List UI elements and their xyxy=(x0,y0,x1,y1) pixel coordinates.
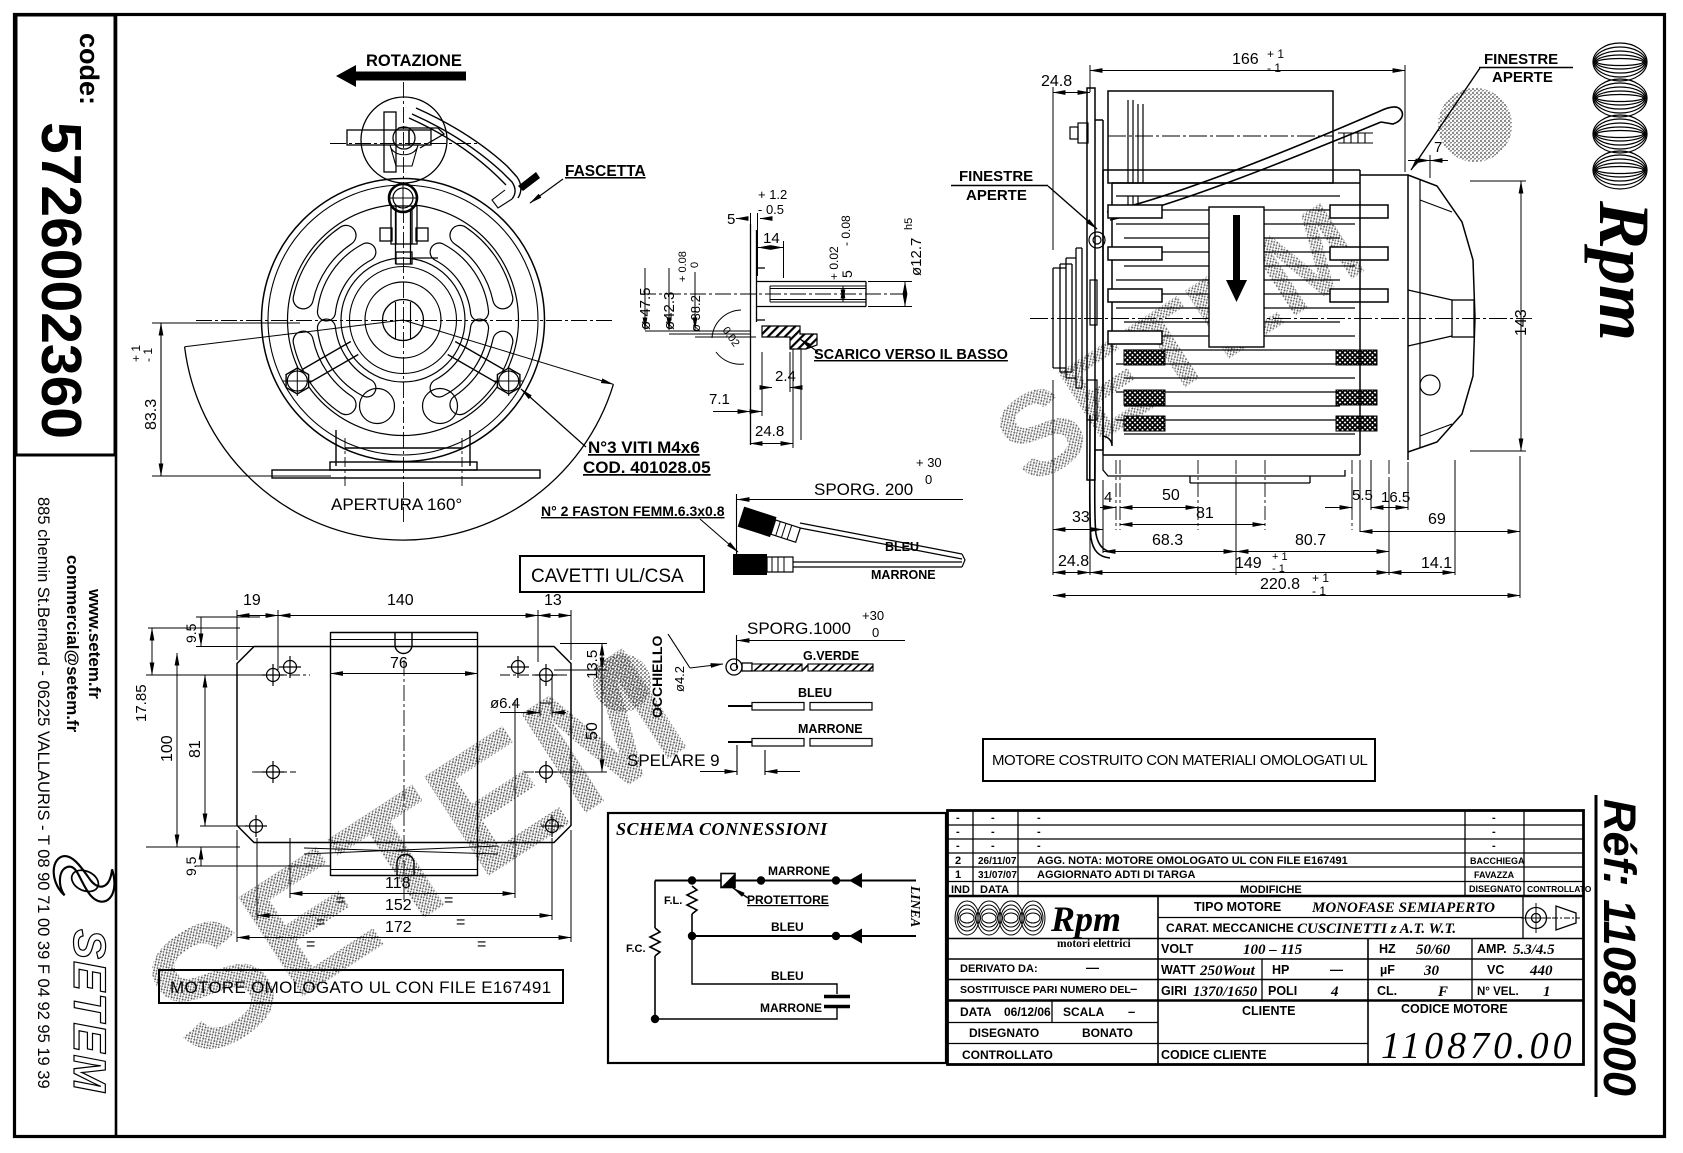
wire bleu xyxy=(692,935,916,937)
angle note 0.02 xyxy=(712,310,741,338)
vent arrow xyxy=(1226,215,1247,302)
wire F.L. to bleu node xyxy=(691,914,693,936)
svg-text:–: – xyxy=(1130,981,1137,996)
svg-text:APERTE: APERTE xyxy=(966,187,1027,204)
svg-text:-: - xyxy=(991,840,995,852)
svg-text:50: 50 xyxy=(584,722,601,740)
svg-text:=: = xyxy=(444,892,453,909)
svg-text:172: 172 xyxy=(385,919,412,936)
svg-text:0: 0 xyxy=(872,625,879,640)
dim 14 xyxy=(758,241,784,278)
vent slot arrow panel xyxy=(1209,207,1264,347)
SETEM logo bottom-left xyxy=(54,856,115,902)
svg-text:—: — xyxy=(1330,962,1343,977)
svg-text:- 1: - 1 xyxy=(1272,563,1285,575)
projection symbol xyxy=(1521,903,1580,933)
flange face vertical xyxy=(750,224,752,445)
svg-text:AGGIORNATO ADTI DI TARGA: AGGIORNATO ADTI DI TARGA xyxy=(1037,869,1196,881)
svg-text:100: 100 xyxy=(159,735,176,762)
svg-text:17.85: 17.85 xyxy=(133,684,150,722)
scarico label xyxy=(800,339,1008,363)
svg-text:AGG. NOTA: MOTORE OMOLOGATO UL: AGG. NOTA: MOTORE OMOLOGATO UL CON FILE … xyxy=(1037,855,1348,867)
box motore omologato xyxy=(159,970,563,1003)
svg-text:Rpm: Rpm xyxy=(1050,899,1121,939)
svg-text:- 1: - 1 xyxy=(1267,61,1281,75)
watermark blobs xyxy=(1438,88,1512,162)
svg-text:SETEM: SETEM xyxy=(64,929,115,1094)
svg-text:CARAT. MECCANICHE: CARAT. MECCANICHE xyxy=(1166,921,1294,935)
svg-text:FASCETTA: FASCETTA xyxy=(565,163,646,180)
code box xyxy=(16,15,115,455)
screw arm 30 xyxy=(455,342,504,370)
vent slots xyxy=(450,331,513,414)
screw arm 150 xyxy=(310,355,359,383)
side view bottom dims xyxy=(1116,460,1389,530)
svg-text:HZ: HZ xyxy=(1379,942,1396,956)
svg-text:MARRONE: MARRONE xyxy=(871,568,936,582)
node junction bleu xyxy=(688,932,696,940)
svg-text:24.8: 24.8 xyxy=(1058,553,1089,570)
svg-text:118: 118 xyxy=(385,875,411,892)
svg-text:BLEU: BLEU xyxy=(771,920,804,934)
svg-text:WATT: WATT xyxy=(1161,963,1196,977)
svg-text:1370/1650: 1370/1650 xyxy=(1193,984,1258,1000)
screw arm -90 xyxy=(395,208,397,264)
svg-text:220.8: 220.8 xyxy=(1260,576,1300,593)
svg-text:code:: code: xyxy=(74,33,104,105)
svg-text:BLEU: BLEU xyxy=(885,540,919,554)
svg-text:5.5: 5.5 xyxy=(1352,487,1373,504)
svg-text:-: - xyxy=(1492,826,1496,838)
svg-text:APERTURA 160°: APERTURA 160° xyxy=(331,495,462,514)
bottom mounting foot xyxy=(1103,455,1345,483)
svg-text:13.5: 13.5 xyxy=(584,650,601,679)
right bell housing xyxy=(1360,170,1475,460)
revision rows text xyxy=(951,812,1592,896)
svg-text:motori elettrici: motori elettrici xyxy=(1057,938,1132,950)
bleu wire xyxy=(728,703,804,711)
svg-text:OCCHIELLO: OCCHIELLO xyxy=(649,635,665,718)
svg-text:DATA: DATA xyxy=(960,1005,992,1019)
svg-text:4: 4 xyxy=(1104,489,1112,506)
svg-text:=: = xyxy=(477,936,486,953)
screw -90 xyxy=(389,184,417,212)
svg-text:SCHEMA CONNESSIONI: SCHEMA CONNESSIONI xyxy=(616,819,828,839)
svg-text:N° VEL.: N° VEL. xyxy=(1477,986,1519,998)
flange cable loop xyxy=(1090,415,1112,558)
svg-text:MARRONE: MARRONE xyxy=(798,722,863,736)
box motore costruito xyxy=(983,739,1375,781)
bottom holes xyxy=(360,389,395,424)
box cavetti xyxy=(520,556,704,592)
svg-text:IND: IND xyxy=(951,884,970,896)
fascetta label xyxy=(530,163,646,203)
svg-text:14.1: 14.1 xyxy=(1421,555,1452,572)
svg-text:=: = xyxy=(316,914,325,931)
svg-text:CLIENTE: CLIENTE xyxy=(1242,1004,1295,1018)
wire left vertical xyxy=(654,881,656,929)
svg-text:68.3: 68.3 xyxy=(1152,532,1183,549)
svg-text:152: 152 xyxy=(385,897,412,914)
svg-text:24.8: 24.8 xyxy=(755,423,784,440)
svg-text:www.setem.fr: www.setem.fr xyxy=(85,588,104,699)
svg-text:100 – 115: 100 – 115 xyxy=(1243,942,1303,958)
svg-text:5.3/4.5: 5.3/4.5 xyxy=(1513,942,1555,958)
ring terminal g.verde xyxy=(726,659,752,675)
svg-text:SOSTITUISCE PARI NUMERO DEL: SOSTITUISCE PARI NUMERO DEL xyxy=(960,984,1131,996)
handle strap xyxy=(1107,107,1402,220)
svg-text:26/11/07: 26/11/07 xyxy=(978,856,1017,867)
svg-text:G.VERDE: G.VERDE xyxy=(803,649,859,663)
svg-text:-: - xyxy=(991,812,995,824)
svg-text:–: – xyxy=(1128,1004,1135,1019)
plate octagon outline xyxy=(237,647,571,843)
svg-text:-: - xyxy=(1037,812,1041,824)
svg-text:-: - xyxy=(1492,840,1496,852)
pulley circle xyxy=(347,97,447,183)
Rpm coil logo top-right xyxy=(1593,43,1647,189)
svg-text:=: = xyxy=(306,936,315,953)
linea arrow top xyxy=(849,873,862,888)
dim 5 top xyxy=(736,213,770,276)
svg-text:DISEGNATO: DISEGNATO xyxy=(1469,884,1522,894)
wire left vertical lower xyxy=(654,956,656,1019)
svg-text:N° 2 FASTON FEMM.6.3x0.8: N° 2 FASTON FEMM.6.3x0.8 xyxy=(541,503,725,519)
svg-text:LINEA: LINEA xyxy=(908,885,923,927)
resistor F.L. main winding xyxy=(687,886,697,914)
svg-text:13: 13 xyxy=(544,592,562,609)
fascetta strap xyxy=(409,108,540,208)
svg-text:80.7: 80.7 xyxy=(1295,532,1326,549)
svg-text:440: 440 xyxy=(1529,963,1553,979)
finestre aperte left label xyxy=(951,168,1097,229)
svg-text:1: 1 xyxy=(955,869,961,881)
svg-text:=: = xyxy=(336,892,345,909)
svg-text:30: 30 xyxy=(1423,963,1440,979)
handle hook blocks xyxy=(0,0,1,1)
faston connector lower xyxy=(733,554,793,575)
svg-text:+ 0.02: + 0.02 xyxy=(827,246,841,280)
svg-text:MODIFICHE: MODIFICHE xyxy=(1240,884,1302,896)
svg-text:SPELARE 9: SPELARE 9 xyxy=(627,751,720,770)
svg-text:33: 33 xyxy=(1072,509,1090,526)
svg-text:0: 0 xyxy=(925,472,932,487)
apertura arc xyxy=(185,347,614,540)
label protettore with leader arrow xyxy=(733,888,829,907)
svg-text:5726002360: 5726002360 xyxy=(29,122,93,439)
svg-text:FAVAZZA: FAVAZZA xyxy=(1474,870,1515,880)
svg-text:-: - xyxy=(1492,812,1496,824)
svg-text:APERTE: APERTE xyxy=(1492,69,1553,86)
shaft outline xyxy=(756,281,866,283)
wire bleu to capacitor xyxy=(692,936,837,994)
rotazione arrow xyxy=(336,65,466,87)
svg-text:5: 5 xyxy=(839,270,855,278)
svg-text:F: F xyxy=(1437,984,1448,1000)
svg-text:BONATO: BONATO xyxy=(1082,1026,1133,1040)
svg-text:50: 50 xyxy=(1162,487,1180,504)
svg-text:VOLT: VOLT xyxy=(1161,942,1194,956)
svg-text:1: 1 xyxy=(1543,984,1551,1000)
svg-text:CAVETTI UL/CSA: CAVETTI UL/CSA xyxy=(531,566,684,587)
svg-text:ROTAZIONE: ROTAZIONE xyxy=(366,52,462,70)
linea arrow bleu xyxy=(849,929,862,944)
svg-text:ø4.2: ø4.2 xyxy=(672,666,687,692)
svg-text:MARRONE: MARRONE xyxy=(760,1001,822,1015)
svg-text:MONOFASE SEMIAPERTO: MONOFASE SEMIAPERTO xyxy=(1311,900,1495,916)
svg-text:SCALA: SCALA xyxy=(1063,1005,1105,1019)
svg-text:PROTETTORE: PROTETTORE xyxy=(747,893,829,907)
svg-text:CUSCINETTI z A.T. W.T.: CUSCINETTI z A.T. W.T. xyxy=(1297,921,1456,937)
svg-text:Réf: 11087000: Réf: 11087000 xyxy=(1594,799,1645,1096)
faston wires xyxy=(793,523,965,567)
svg-text:-: - xyxy=(991,826,995,838)
svg-text:N°3 VITI M4x6: N°3 VITI M4x6 xyxy=(588,438,700,457)
pulley left xyxy=(1053,248,1082,388)
main block lines xyxy=(1157,896,1159,1065)
svg-text:MOTORE OMOLOGATO UL CON FILE E: MOTORE OMOLOGATO UL CON FILE E167491 xyxy=(170,978,551,997)
revision table lines xyxy=(948,824,1584,826)
svg-text:+ 1: + 1 xyxy=(1272,551,1288,563)
slot hole marks xyxy=(540,675,552,703)
svg-text:MOTORE COSTRUITO CON MATERIALI: MOTORE COSTRUITO CON MATERIALI OMOLOGATI… xyxy=(992,752,1368,769)
equality marks xyxy=(306,892,486,953)
svg-text:commercial@setem.fr: commercial@setem.fr xyxy=(63,555,82,733)
watermark SETEM side view xyxy=(972,178,1385,510)
svg-text:+ 1: + 1 xyxy=(1312,571,1329,585)
capacitor wires xyxy=(1128,100,1143,218)
svg-text:CODICE CLIENTE: CODICE CLIENTE xyxy=(1161,1048,1267,1062)
side centerline xyxy=(1030,318,1532,320)
flange xyxy=(1087,88,1103,480)
svg-text:F.C.: F.C. xyxy=(626,943,646,955)
svg-text:ø6.4: ø6.4 xyxy=(490,695,520,712)
screw 150 xyxy=(286,368,309,394)
wire capacitor to marrone xyxy=(655,1008,837,1019)
svg-text:5: 5 xyxy=(727,211,735,228)
svg-text:VC: VC xyxy=(1487,963,1504,977)
svg-text:7: 7 xyxy=(1434,139,1442,156)
svg-text:HP: HP xyxy=(1272,963,1289,977)
svg-text:9.5: 9.5 xyxy=(183,623,199,643)
svg-text:DERIVATO DA:: DERIVATO DA: xyxy=(960,963,1038,975)
svg-text:SPORG. 200: SPORG. 200 xyxy=(814,480,913,499)
svg-text:4: 4 xyxy=(1330,984,1339,1000)
resistor F.C. aux winding xyxy=(650,928,660,956)
stator outer circles xyxy=(262,179,545,462)
svg-text:CODICE MOTORE: CODICE MOTORE xyxy=(1401,1002,1508,1016)
svg-text:CONTROLLATO: CONTROLLATO xyxy=(1527,884,1592,894)
svg-text:-: - xyxy=(1037,840,1041,852)
svg-text:- 1: - 1 xyxy=(141,348,155,362)
Rpm logo in title block xyxy=(955,901,1045,935)
svg-text:885 chemin St.Bernard - 0622: 885 chemin St.Bernard - 06225 VALLAURIS … xyxy=(34,497,52,1089)
faston label xyxy=(541,503,738,552)
svg-text:POLI: POLI xyxy=(1268,984,1297,998)
svg-text:166: 166 xyxy=(1232,51,1259,68)
window hatches left xyxy=(1124,350,1377,431)
node junction bottom-left xyxy=(651,1015,659,1023)
svg-text:DATA: DATA xyxy=(980,884,1009,896)
band profile xyxy=(331,632,478,876)
terminal bracket below top screw xyxy=(380,206,438,264)
svg-text:0: 0 xyxy=(689,262,701,268)
svg-text:h5: h5 xyxy=(903,218,915,230)
svg-text:31/07/07: 31/07/07 xyxy=(978,870,1017,881)
svg-text:CL.: CL. xyxy=(1377,984,1397,998)
svg-text:- 0.5: - 0.5 xyxy=(758,202,784,217)
protettore thermal protector xyxy=(721,874,735,888)
left margin divider xyxy=(115,14,118,1136)
viti label xyxy=(521,389,711,477)
svg-text:149: 149 xyxy=(1235,555,1262,572)
svg-text:BLEU: BLEU xyxy=(798,686,832,700)
svg-text:GIRI: GIRI xyxy=(1161,984,1187,998)
svg-text:50/60: 50/60 xyxy=(1416,942,1451,958)
faston connector upper xyxy=(738,507,802,546)
svg-text:F.L.: F.L. xyxy=(664,895,682,907)
svg-text:+30: +30 xyxy=(862,608,884,623)
svg-text:BLEU: BLEU xyxy=(771,969,804,983)
svg-text:- 0.08: - 0.08 xyxy=(839,215,853,246)
svg-text:=: = xyxy=(456,914,465,931)
svg-text:+ 1: + 1 xyxy=(1267,47,1284,61)
svg-text:06/12/06: 06/12/06 xyxy=(1004,1005,1051,1019)
node junction marrone right xyxy=(832,876,840,884)
svg-text:+ 0.08: + 0.08 xyxy=(677,251,689,282)
svg-text:TIPO MOTORE: TIPO MOTORE xyxy=(1194,900,1281,914)
flange screw xyxy=(1070,123,1105,420)
svg-text:250Wout: 250Wout xyxy=(1199,963,1256,979)
terminal box xyxy=(1108,91,1333,183)
svg-text:SPORG.1000: SPORG.1000 xyxy=(747,619,851,638)
svg-text:ø12.7: ø12.7 xyxy=(908,238,925,276)
svg-text:-: - xyxy=(956,840,960,852)
svg-text:SCARICO VERSO IL BASSO: SCARICO VERSO IL BASSO xyxy=(814,347,1008,363)
plate centerline xyxy=(403,660,405,900)
capacitor C xyxy=(824,997,850,1007)
svg-text:COD. 401028.05: COD. 401028.05 xyxy=(583,458,711,477)
svg-text:-: - xyxy=(956,826,960,838)
svg-text:140: 140 xyxy=(387,592,414,609)
svg-text:µF: µF xyxy=(1380,963,1395,977)
svg-text:24.8: 24.8 xyxy=(1041,73,1072,90)
svg-text:16.5: 16.5 xyxy=(1381,489,1410,506)
title block text rows xyxy=(960,900,1555,1062)
node bleu right xyxy=(832,932,840,940)
svg-text:CONTROLLATO: CONTROLLATO xyxy=(962,1048,1053,1062)
svg-text:7.1: 7.1 xyxy=(709,391,730,408)
plate holes xyxy=(245,656,563,837)
dim 83.3 xyxy=(152,323,331,476)
svg-text:AMP.: AMP. xyxy=(1477,942,1507,956)
finestre aperte right label xyxy=(1411,51,1573,170)
stator fins xyxy=(1108,196,1388,434)
svg-text:2: 2 xyxy=(955,855,961,867)
svg-text:Rpm: Rpm xyxy=(1584,200,1664,341)
shaft centerline xyxy=(640,293,905,295)
svg-text:110870.00: 110870.00 xyxy=(1381,1025,1576,1067)
svg-text:MARRONE: MARRONE xyxy=(768,864,830,878)
svg-text:—: — xyxy=(1086,960,1099,975)
marrone wire xyxy=(728,739,872,747)
svg-text:76: 76 xyxy=(390,655,408,672)
svg-text:81: 81 xyxy=(187,740,204,758)
fold lines xyxy=(304,848,498,854)
svg-text:69: 69 xyxy=(1428,511,1446,528)
svg-text:FINESTRE: FINESTRE xyxy=(1484,51,1558,68)
front view centerlines xyxy=(196,82,614,522)
wire marrone top xyxy=(655,880,916,882)
svg-text:+ 30: + 30 xyxy=(916,455,942,470)
svg-text:19: 19 xyxy=(243,592,261,609)
svg-text:-: - xyxy=(956,812,960,824)
motor body shell xyxy=(1102,170,1360,455)
svg-text:81: 81 xyxy=(1196,505,1214,522)
svg-text:14: 14 xyxy=(763,230,780,247)
base bracket xyxy=(272,430,540,478)
svg-text:+ 1.2: + 1.2 xyxy=(758,187,787,202)
svg-text:83.3: 83.3 xyxy=(143,399,160,430)
screw 30 xyxy=(497,368,520,394)
node junction top-left xyxy=(688,876,696,884)
scarico hatched section xyxy=(762,326,817,349)
watermark SETEM big xyxy=(112,611,718,1097)
keyway lines xyxy=(770,285,866,287)
svg-text:DISEGNATO: DISEGNATO xyxy=(969,1026,1039,1040)
svg-text:BACCHIEGA: BACCHIEGA xyxy=(1470,856,1525,866)
node junction marrone mid xyxy=(757,876,765,884)
g.verde wire striped xyxy=(752,664,873,671)
svg-text:FINESTRE: FINESTRE xyxy=(959,168,1033,185)
schema box frame xyxy=(608,813,946,1063)
svg-text:-: - xyxy=(1037,826,1041,838)
